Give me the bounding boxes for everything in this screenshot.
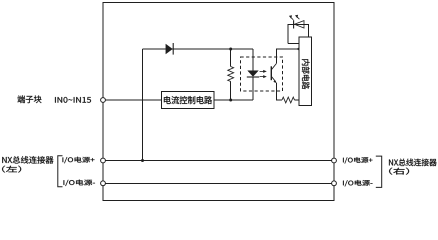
wire: input indicator LED branch — [288, 24, 309, 43]
label 端子块 (terminal block) — [18, 95, 42, 103]
label I/O电源+ (right) — [343, 157, 373, 163]
label I/O电源- (right) — [343, 180, 373, 186]
junction dot: left vertical at I/O+ rail — [141, 159, 144, 162]
left connector bracket — [58, 156, 63, 187]
phototransistor Q1 — [271, 64, 277, 84]
wire: left vertical from diode line to I/O power + rail — [142, 49, 144, 161]
label NX总线连接器 (right) — [389, 159, 437, 167]
module enclosure box — [103, 3, 334, 201]
label NX总线连接器 (left) — [2, 156, 53, 164]
label I/O电源+ (left) — [63, 157, 95, 163]
terminal left I/O power + (circle) — [101, 158, 106, 163]
terminal left I/O power - (circle) — [101, 181, 106, 186]
wire: phototransistor collector to internal circuit — [276, 49, 299, 64]
junction dot: IN line / R1 bottom — [229, 99, 232, 102]
wire: I/O power + rail — [105, 160, 331, 162]
label （左） — [2, 166, 21, 173]
input indicator LED D3 — [294, 20, 304, 28]
label I/O电源- (left) — [64, 180, 96, 186]
right connector bracket — [376, 156, 382, 187]
junction dot: collector line at internal circuit box — [297, 48, 299, 50]
resistor R1 (vertical, diode line to IN line) — [228, 49, 234, 100]
label IN0~IN15 — [55, 97, 91, 103]
wire: IN input line (terminal to optocoupler branch) — [105, 99, 253, 101]
resistor R2 (horizontal, emitter to internal circuit) — [282, 97, 299, 103]
internal circuit box U2 — [299, 37, 312, 106]
current control circuit box U3 — [162, 91, 215, 108]
wire: I/O power - rail — [105, 182, 331, 184]
optocoupler U1 (dashed outline) — [241, 57, 283, 91]
wire: optocoupler LED branch (vertical) — [252, 49, 254, 100]
junction dot: diode line / R1 top — [229, 48, 232, 51]
terminal IN (circle) — [101, 98, 106, 103]
terminal right I/O power + (circle) — [332, 158, 337, 163]
label （右） — [389, 168, 409, 175]
wire: phototransistor emitter down — [276, 83, 282, 100]
optocoupler LED D2 — [247, 71, 259, 77]
indicator LED light arrows — [289, 15, 300, 20]
terminal right I/O power - (circle) — [332, 181, 337, 186]
wire: diode line (top horizontal) — [143, 48, 254, 50]
diode D1 — [166, 43, 173, 55]
optocoupler light arrows — [260, 70, 267, 78]
